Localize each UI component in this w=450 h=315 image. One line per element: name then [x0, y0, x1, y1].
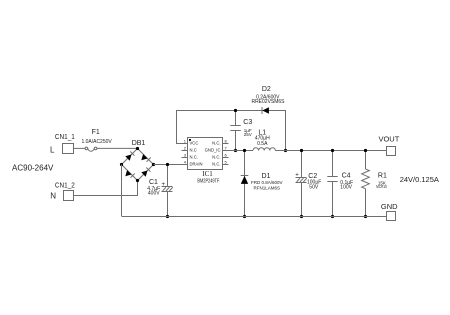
svg-text:+: +: [295, 173, 299, 179]
svg-text:F1: F1: [92, 129, 100, 136]
svg-text:N.C.: N.C.: [212, 162, 220, 167]
svg-text:R1: R1: [378, 172, 387, 179]
svg-text:D2: D2: [262, 86, 271, 93]
svg-text:RFN1LAM6S: RFN1LAM6S: [254, 185, 281, 190]
svg-text:N: N: [50, 192, 56, 201]
svg-text:N.C.: N.C.: [212, 155, 220, 160]
svg-text:100V: 100V: [340, 185, 352, 191]
svg-text:D1: D1: [262, 173, 271, 180]
svg-text:RRE02VSM6S: RRE02VSM6S: [251, 99, 285, 105]
svg-text:IC1: IC1: [202, 170, 213, 178]
svg-text:CN1_2: CN1_2: [55, 181, 75, 190]
svg-text:GND_IC: GND_IC: [205, 148, 221, 153]
svg-text:N.C.: N.C.: [190, 155, 198, 160]
svg-text:0.5A: 0.5A: [257, 141, 268, 147]
svg-text:C4: C4: [342, 172, 351, 179]
svg-text:+: +: [162, 182, 166, 188]
svg-text:DB1: DB1: [132, 140, 146, 147]
svg-text:CN1_1: CN1_1: [55, 132, 75, 141]
svg-text:AC90-264V: AC90-264V: [12, 164, 54, 173]
svg-text:N.C: N.C: [190, 148, 197, 153]
svg-text:50V: 50V: [309, 185, 319, 191]
svg-text:L: L: [50, 146, 55, 155]
svg-text:VCC: VCC: [190, 141, 199, 146]
svg-text:GND: GND: [381, 202, 398, 211]
svg-text:C3: C3: [243, 119, 252, 126]
svg-text:25V: 25V: [244, 132, 252, 137]
svg-text:1.0A/AC250V: 1.0A/AC250V: [81, 139, 112, 145]
svg-text:DRAIN: DRAIN: [190, 162, 203, 167]
svg-text:BM2P249TF: BM2P249TF: [197, 178, 219, 184]
svg-text:400V: 400V: [148, 190, 160, 196]
svg-text:24V/0.125A: 24V/0.125A: [400, 175, 439, 184]
svg-text:VOUT: VOUT: [378, 134, 399, 143]
svg-text:N.C.: N.C.: [212, 141, 220, 146]
svg-text:MCR10: MCR10: [376, 184, 387, 189]
